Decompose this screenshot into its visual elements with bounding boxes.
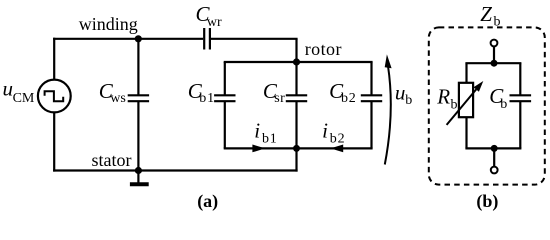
svg-text:sr: sr <box>274 91 285 106</box>
wire terminal to top rail <box>493 46 495 63</box>
label Z_b <box>480 2 500 29</box>
wire C_ws branch lower <box>137 101 139 170</box>
wire junction to bottom rail <box>295 148 297 171</box>
wire bottom rail (b) <box>465 147 521 149</box>
node junction bottom rail <box>293 145 300 152</box>
node rotor <box>293 39 342 66</box>
svg-text:(b): (b) <box>476 191 498 212</box>
wire C_sr branch lower <box>295 101 297 148</box>
svg-text:b2: b2 <box>341 91 357 106</box>
impedance box Z_b (dashed) <box>429 27 545 184</box>
voltage arrow u_b <box>385 54 413 164</box>
svg-text:b: b <box>500 97 507 112</box>
wire C_ws branch upper <box>137 39 139 96</box>
wire R branch lower <box>465 116 467 148</box>
svg-text:u: u <box>395 80 406 104</box>
wire top rail (b) <box>465 62 521 64</box>
svg-text:ws: ws <box>110 91 126 106</box>
svg-text:Z: Z <box>480 2 492 26</box>
svg-text:b: b <box>494 15 501 30</box>
label u_CM <box>3 77 35 106</box>
svg-text:CM: CM <box>13 91 35 106</box>
capacitor C_wr <box>196 2 223 50</box>
current arrow i_b1 <box>252 118 277 152</box>
svg-text:u: u <box>3 77 14 101</box>
capacitor C_ws <box>99 79 149 106</box>
wire C_b2 branch upper <box>370 62 372 95</box>
svg-text:stator: stator <box>92 150 132 170</box>
node top <box>491 60 498 67</box>
terminal bottom <box>491 167 498 174</box>
node bottom <box>491 145 498 152</box>
wire left vertical upper <box>53 38 55 80</box>
svg-text:(a): (a) <box>197 191 218 212</box>
wire node to bottom terminal <box>493 148 495 166</box>
terminal top <box>491 40 498 47</box>
wire C_b2 branch lower <box>370 101 372 148</box>
capacitor C_b <box>489 63 531 148</box>
resistor R_b <box>436 81 483 125</box>
svg-text:b1: b1 <box>199 91 215 106</box>
wire cap group top rail <box>224 61 373 63</box>
current arrow i_b2 <box>322 118 345 152</box>
capacitor C_sr <box>263 79 307 106</box>
svg-text:b1: b1 <box>262 131 278 146</box>
wire C_sr branch upper <box>295 62 297 95</box>
svg-text:R: R <box>436 85 450 109</box>
node stator <box>92 150 142 174</box>
wire top right of C_wr <box>211 38 298 40</box>
capacitor C_b2 <box>329 79 382 106</box>
ground <box>130 171 149 185</box>
wire left vertical lower <box>53 112 55 171</box>
wire C_b1 branch upper <box>224 62 226 95</box>
capacitor C_b1 <box>188 79 236 106</box>
wire R branch upper <box>465 63 467 84</box>
svg-text:rotor: rotor <box>305 39 342 59</box>
voltage source u_CM <box>38 80 71 113</box>
wire right vertical down to rotor <box>295 39 297 62</box>
svg-text:wr: wr <box>207 15 222 30</box>
svg-text:b2: b2 <box>330 131 346 146</box>
wire C_b1 branch lower <box>224 101 226 148</box>
svg-text:b: b <box>451 97 458 112</box>
wire cap group bottom rail <box>224 147 373 149</box>
wire top left (winding rail) <box>53 38 203 40</box>
svg-text:b: b <box>405 93 412 108</box>
svg-text:winding: winding <box>79 14 138 34</box>
node winding <box>79 14 142 42</box>
svg-text:i: i <box>254 118 260 142</box>
wire bottom (stator rail) <box>53 169 298 171</box>
svg-text:i: i <box>322 118 328 142</box>
